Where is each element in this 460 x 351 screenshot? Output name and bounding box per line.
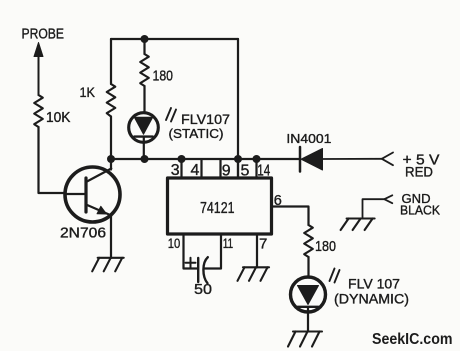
node dot top rail — [141, 35, 149, 43]
emission marks (dynamic) — [330, 269, 335, 282]
pin 5 wire — [237, 159, 239, 177]
pin 3 wire — [180, 159, 182, 177]
svg-text:BLACK: BLACK — [400, 203, 440, 218]
wire top rail — [111, 38, 238, 40]
svg-text:SeekIC.com: SeekIC.com — [372, 331, 453, 348]
svg-text:FLV 107: FLV 107 — [348, 277, 400, 292]
svg-text:180: 180 — [315, 238, 336, 255]
svg-text:10: 10 — [168, 235, 181, 251]
pin 11 wire — [204, 234, 221, 269]
ground (dynamic LED) — [288, 332, 322, 347]
svg-text:180: 180 — [153, 68, 174, 85]
svg-text:74121: 74121 — [200, 200, 235, 217]
wire gnd — [363, 199, 385, 217]
svg-text:IN4001: IN4001 — [286, 131, 331, 146]
capacitor C1 50 — [197, 258, 199, 282]
resistor R 1K with wires — [110, 39, 112, 84]
svg-text:10K: 10K — [46, 109, 71, 126]
svg-text:11: 11 — [223, 235, 234, 251]
svg-text:2N706: 2N706 — [60, 226, 106, 242]
ground (emitter) — [92, 258, 124, 272]
ground (GND black) — [341, 219, 375, 231]
emission marks (static) — [166, 108, 171, 120]
LED D2 FLV107 (dynamic) — [291, 277, 326, 312]
svg-text:(STATIC): (STATIC) — [169, 126, 224, 141]
resistor R 180 (dynamic) — [304, 225, 313, 257]
ground (pin 7) — [238, 267, 270, 281]
wire top rail right drop — [237, 39, 239, 177]
svg-text:7: 7 — [259, 236, 267, 253]
pin 9 wire — [219, 160, 221, 178]
node dots on rail — [107, 155, 115, 163]
collector wire — [110, 159, 112, 170]
pin 10 wire — [184, 234, 198, 269]
svg-text:PROBE: PROBE — [22, 27, 65, 43]
wire +5V rail — [111, 158, 299, 160]
svg-text:50: 50 — [194, 282, 212, 298]
svg-text:FLV107: FLV107 — [181, 112, 230, 127]
+5V chevron — [382, 153, 393, 166]
wire probe to base — [39, 127, 66, 193]
svg-text:1K: 1K — [80, 84, 96, 100]
probe arrow — [38, 56, 40, 95]
pin 14 wire — [255, 159, 257, 177]
transistor Q1 2N706 — [65, 167, 120, 222]
resistor R 10K — [34, 95, 43, 127]
emitter wire — [110, 215, 112, 258]
IC U1 74121 — [168, 178, 272, 234]
svg-text:RED: RED — [405, 165, 433, 180]
svg-text:(DYNAMIC): (DYNAMIC) — [334, 292, 409, 307]
GND chevron — [384, 195, 392, 203]
resistor R 180 (static) — [143, 39, 145, 54]
LED D1 FLV107 (static) — [129, 113, 159, 143]
pin 7 wire — [256, 234, 258, 267]
pin 4 wire — [200, 160, 202, 178]
